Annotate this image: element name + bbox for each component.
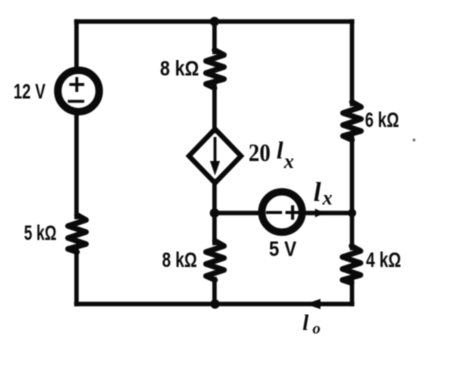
wire left upper xyxy=(74,22,78,70)
dependent current source 20Ix (diamond with down arrow) xyxy=(189,129,241,183)
svg-text:20: 20 xyxy=(249,140,271,167)
svg-text:5 V: 5 V xyxy=(269,238,297,261)
wire middle upper-mid xyxy=(212,86,216,131)
resistor R 8k top xyxy=(206,50,224,88)
voltage source V2 5V xyxy=(262,192,302,232)
label Ix xyxy=(314,177,333,210)
svg-text:8 kΩ: 8 kΩ xyxy=(160,57,199,80)
wire middle horizontal left (to 5V source) xyxy=(215,211,259,215)
wire bottom xyxy=(77,302,353,307)
node middle junction xyxy=(210,208,220,218)
voltage source V1 12V xyxy=(58,70,99,111)
resistor R 6k xyxy=(343,102,361,140)
svg-text:4 kΩ: 4 kΩ xyxy=(366,249,401,272)
wire right upper xyxy=(350,22,354,105)
svg-text:5 kΩ: 5 kΩ xyxy=(24,222,57,245)
wire middle lower-mid xyxy=(212,181,216,243)
wire middle horizontal right (5V source to right branch) xyxy=(305,211,353,215)
node bottom junction xyxy=(210,299,219,308)
wire right lower xyxy=(350,281,354,304)
wire left middle xyxy=(74,113,78,217)
svg-text:8 kΩ: 8 kΩ xyxy=(162,249,197,272)
arrow current Io (pointing left on bottom wire) xyxy=(306,299,321,309)
speck artifact xyxy=(413,139,416,142)
svg-text:6 kΩ: 6 kΩ xyxy=(365,109,399,132)
wire middle top xyxy=(212,22,216,53)
arrow current Ix (pointing right) xyxy=(315,209,325,218)
resistor R 8k bottom xyxy=(206,241,224,280)
resistor R 5k xyxy=(68,215,86,252)
wire left lower xyxy=(74,251,78,304)
svg-text:o: o xyxy=(313,321,321,338)
svg-text:l: l xyxy=(303,310,310,335)
wire right middle xyxy=(350,138,354,248)
wire middle bottom xyxy=(212,279,216,304)
label 20 Ix xyxy=(249,139,295,174)
svg-text:12 V: 12 V xyxy=(14,80,46,104)
node right-middle junction xyxy=(348,209,356,217)
svg-text:x: x xyxy=(322,188,333,210)
node top junction xyxy=(210,17,219,26)
svg-text:x: x xyxy=(283,151,294,173)
label Io xyxy=(303,310,321,338)
wire top (node between V1, R1, R6k) xyxy=(77,19,353,24)
svg-text:l: l xyxy=(277,139,284,165)
resistor R 4k xyxy=(343,246,361,283)
svg-text:l: l xyxy=(314,177,322,207)
